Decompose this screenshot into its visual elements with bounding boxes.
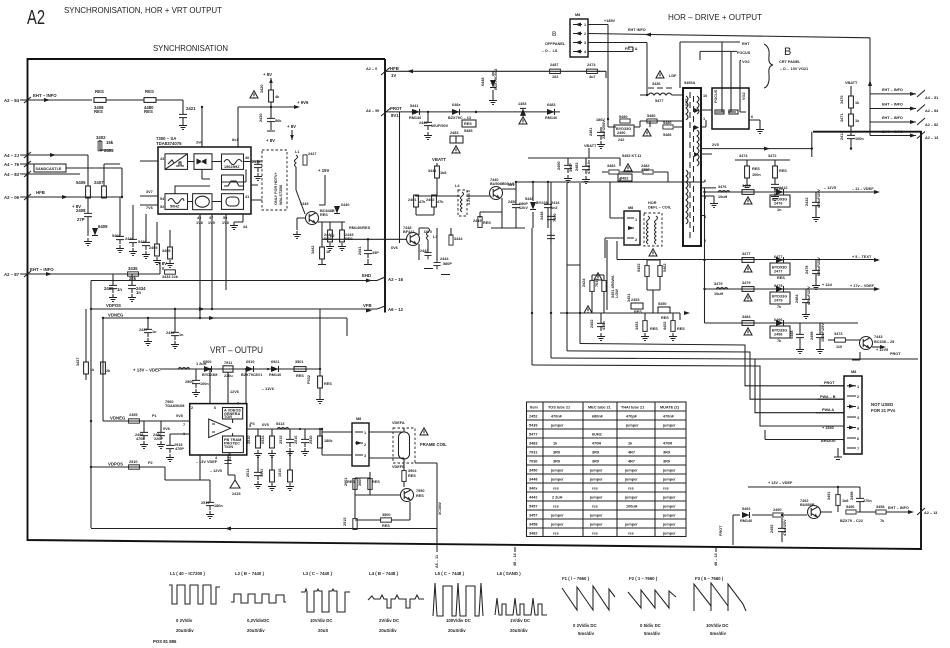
svg-text:2421: 2421 — [186, 106, 196, 111]
svg-text:1: 1 — [364, 431, 366, 435]
svg-text:3R9: 3R9 — [592, 460, 599, 464]
svg-text:P3: P3 — [250, 422, 255, 426]
svg-text:LOW: LOW — [615, 289, 619, 298]
svg-text:BZX79C8V2: BZX79C8V2 — [494, 69, 498, 90]
svg-text:jumper: jumper — [662, 424, 676, 428]
svg-text:A4 – 76: A4 – 76 — [4, 162, 20, 167]
svg-text:5ms/div: 5ms/div — [644, 631, 661, 636]
svg-text:3: 3 — [237, 402, 239, 406]
svg-text:BF422: BF422 — [403, 230, 414, 234]
svg-text:2437: 2437 — [139, 328, 147, 332]
svg-text:10: 10 — [703, 94, 707, 98]
svg-text:2510: 2510 — [247, 436, 251, 444]
svg-text:1n: 1n — [117, 287, 122, 292]
svg-text:3420: 3420 — [260, 85, 264, 93]
svg-text:7V6: 7V6 — [146, 206, 153, 210]
svg-text:RM140: RM140 — [409, 116, 421, 120]
svg-text:P2: P2 — [148, 461, 153, 465]
svg-text:20uS/div: 20uS/div — [448, 628, 466, 633]
svg-text:3442: 3442 — [311, 246, 315, 254]
svg-text:res: res — [592, 487, 598, 491]
svg-text:1n: 1n — [179, 333, 184, 337]
svg-text:A2 – 0: A2 – 0 — [366, 67, 377, 71]
svg-text:3448: 3448 — [540, 212, 544, 220]
svg-text:3483: 3483 — [529, 442, 537, 446]
svg-text:HFB: HFB — [36, 190, 45, 195]
svg-text:FOCUS: FOCUS — [737, 51, 751, 55]
svg-text:3904: 3904 — [408, 469, 417, 473]
svg-text:WALST2B0: WALST2B0 — [279, 185, 283, 205]
svg-text:+ 12V5: + 12V5 — [876, 348, 888, 352]
svg-text:6: 6 — [751, 115, 753, 119]
svg-text:2432: 2432 — [805, 198, 809, 206]
svg-text:2513: 2513 — [246, 469, 250, 477]
svg-text:6440: 6440 — [341, 203, 349, 207]
svg-text:+185V: +185V — [604, 19, 616, 23]
svg-text:RES: RES — [372, 480, 380, 484]
svg-text:2413: 2413 — [840, 132, 844, 140]
svg-text:6V5: 6V5 — [262, 423, 269, 427]
svg-text:RES: RES — [416, 494, 424, 498]
svg-text:2483: 2483 — [450, 131, 458, 135]
svg-text:390P: 390P — [569, 163, 573, 172]
svg-text:RES: RES — [145, 89, 154, 94]
svg-text:22uF/250V: 22uF/250V — [602, 120, 606, 139]
svg-text:1k: 1k — [855, 101, 860, 105]
svg-text:F2 ( 1 – 7660 ): F2 ( 1 – 7660 ) — [629, 576, 658, 581]
svg-text:20uS/div: 20uS/div — [176, 628, 194, 633]
svg-text:RES: RES — [324, 382, 332, 386]
svg-text:A2 – 13: A2 – 13 — [924, 511, 937, 515]
svg-text:EHD: EHD — [362, 273, 371, 278]
svg-text:242: 242 — [618, 138, 624, 142]
svg-text:jumper: jumper — [662, 532, 676, 536]
svg-text:5495A: 5495A — [684, 81, 695, 85]
svg-text:A2 – 84: A2 – 84 — [4, 98, 20, 103]
svg-text:EHT – INFO: EHT – INFO — [882, 88, 903, 92]
svg-text:1: 1 — [703, 117, 705, 121]
svg-text:2419: 2419 — [252, 160, 260, 164]
svg-text:+ 1540: + 1540 — [822, 426, 834, 430]
svg-text:L2: L2 — [330, 234, 334, 238]
svg-text:VDEFB: VDEFB — [392, 465, 405, 469]
svg-text:CRT PANEL: CRT PANEL — [779, 60, 801, 64]
svg-text:3R9: 3R9 — [553, 451, 560, 455]
svg-text:L5 ( C – 7448 ): L5 ( C – 7448 ) — [435, 571, 464, 576]
svg-text:4: 4 — [584, 50, 587, 54]
svg-text:SYNCHRONISATION: SYNCHRONISATION — [153, 43, 228, 53]
svg-text:VDPOS: VDPOS — [108, 462, 123, 467]
svg-text:L6 ( SAND ): L6 ( SAND ) — [497, 571, 521, 576]
svg-text:jumper: jumper — [589, 496, 603, 500]
svg-text:RES: RES — [777, 276, 785, 280]
svg-text:jumper: jumper — [550, 469, 564, 473]
svg-text:1k: 1k — [553, 442, 558, 446]
svg-text:+ 8V: + 8V — [72, 204, 81, 209]
svg-text:1k8: 1k8 — [842, 499, 848, 503]
svg-text:1V8: 1V8 — [222, 221, 229, 225]
svg-text:2450: 2450 — [508, 200, 516, 204]
svg-text:33P: 33P — [372, 251, 379, 255]
svg-text:jumper: jumper — [662, 496, 676, 500]
svg-text:5480: 5480 — [647, 114, 655, 118]
svg-text:A6 – 99: A6 – 99 — [366, 109, 379, 113]
svg-text:100n: 100n — [200, 382, 209, 386]
svg-text:jumper: jumper — [624, 478, 638, 482]
svg-text:2498: 2498 — [810, 332, 814, 340]
svg-text:7k: 7k — [777, 339, 782, 343]
svg-text:648x: 648x — [452, 103, 461, 107]
svg-text:2515: 2515 — [343, 518, 347, 526]
svg-text:jumper: jumper — [589, 469, 603, 473]
svg-text:THAI tube 21: THAI tube 21 — [621, 406, 644, 410]
svg-text:3476: 3476 — [742, 184, 750, 188]
svg-text:B: B — [784, 46, 791, 58]
svg-text:2483: 2483 — [575, 163, 579, 171]
svg-text:47: 47 — [209, 216, 213, 220]
svg-text:3448: 3448 — [529, 478, 537, 482]
svg-text:res: res — [553, 532, 559, 536]
svg-text:50: 50 — [223, 216, 227, 220]
svg-text:PROT: PROT — [390, 106, 402, 111]
svg-text:+ 12d: + 12d — [822, 283, 832, 287]
svg-text:110: 110 — [836, 345, 842, 349]
svg-text:EHT – INFO: EHT – INFO — [30, 267, 54, 272]
svg-text:10V/div DC: 10V/div DC — [310, 618, 332, 623]
svg-text:2452: 2452 — [590, 320, 594, 328]
svg-text:A2 – 87: A2 – 87 — [4, 272, 20, 277]
svg-text:1453: 1453 — [518, 102, 526, 106]
svg-text:7k: 7k — [777, 305, 782, 309]
svg-text:+ 15V: + 15V — [318, 168, 329, 173]
svg-text:20uS/div: 20uS/div — [247, 628, 265, 633]
svg-text:2: 2 — [857, 395, 859, 399]
svg-text:680uF/25V: 680uF/25V — [817, 257, 821, 276]
svg-text:47u/10v: 47u/10v — [587, 159, 591, 174]
svg-text:5480: 5480 — [663, 121, 671, 125]
svg-text:470R: 470R — [663, 442, 672, 446]
svg-text:470nF: 470nF — [663, 415, 675, 419]
svg-text:3437: 3437 — [76, 358, 80, 366]
svg-text:2403: 2403 — [104, 148, 114, 153]
svg-text:res: res — [553, 487, 559, 491]
svg-text:3479: 3479 — [714, 282, 722, 286]
svg-text:TOR: TOR — [224, 415, 232, 419]
svg-text:3436: 3436 — [652, 82, 660, 86]
svg-text:0V8: 0V8 — [176, 414, 183, 418]
svg-text:47uF/25V: 47uF/25V — [783, 519, 787, 536]
svg-text:1V/div DC: 1V/div DC — [510, 618, 530, 623]
svg-text:2416: 2416 — [125, 237, 133, 241]
svg-text:RES: RES — [296, 374, 304, 378]
svg-text:6: 6 — [214, 406, 216, 410]
svg-text:3498: 3498 — [876, 505, 884, 509]
svg-text:15625HZ: 15625HZ — [224, 165, 240, 169]
svg-text:VRT – OUTPU: VRT – OUTPU — [210, 345, 263, 355]
svg-text:1: 1 — [635, 218, 637, 222]
svg-text:1n: 1n — [136, 290, 141, 295]
svg-text:+ 17v – VDEF: + 17v – VDEF — [850, 284, 875, 288]
svg-text:7911: 7911 — [224, 361, 232, 365]
svg-text:6448: 6448 — [790, 331, 794, 339]
svg-text:EHT – INFO: EHT – INFO — [888, 506, 909, 510]
svg-text:10V/div DC: 10V/div DC — [706, 623, 728, 628]
svg-text:56k: 56k — [275, 119, 282, 123]
svg-text:L1: L1 — [295, 150, 299, 154]
svg-text:jumper: jumper — [624, 496, 638, 500]
svg-text:10uH: 10uH — [718, 195, 728, 199]
svg-text:2415: 2415 — [232, 492, 240, 496]
svg-text:5: 5 — [857, 427, 859, 431]
svg-text:– 13V VDEF: – 13V VDEF — [196, 460, 218, 464]
svg-text:27P: 27P — [77, 217, 85, 222]
svg-text:TDA8302M: TDA8302M — [165, 404, 184, 408]
svg-text:5ms/div: 5ms/div — [578, 631, 595, 636]
svg-text:2490: 2490 — [773, 508, 781, 512]
svg-text:470nF: 470nF — [551, 415, 563, 419]
svg-text:5450: 5450 — [658, 302, 666, 306]
svg-text:3: 3 — [584, 41, 586, 45]
svg-text:RM140: RM140 — [545, 116, 557, 120]
svg-text:5452 KT.11: 5452 KT.11 — [622, 154, 641, 158]
svg-text:100uF/25V: 100uF/25V — [821, 323, 825, 342]
svg-text:+ 8V: + 8V — [287, 124, 296, 129]
svg-text:4452: 4452 — [663, 322, 667, 330]
svg-text:470R: 470R — [592, 442, 601, 446]
svg-text:2427: 2427 — [308, 152, 316, 156]
svg-text:5448: 5448 — [525, 197, 533, 201]
svg-text:3402: 3402 — [96, 135, 106, 140]
svg-text:4 2444 3: 4 2444 3 — [467, 190, 471, 205]
svg-text:A2 – 13: A2 – 13 — [925, 136, 938, 140]
svg-text:5406: 5406 — [76, 180, 86, 185]
svg-text:3433 22k: 3433 22k — [162, 275, 179, 279]
svg-text:FOCUS: FOCUS — [714, 89, 718, 103]
svg-text:A6 – 11: A6 – 11 — [435, 555, 439, 568]
svg-text:2510: 2510 — [129, 460, 137, 464]
svg-text:→O← LS: →O← LS — [541, 49, 558, 53]
svg-text:RES: RES — [95, 89, 104, 94]
svg-text:LDF: LDF — [669, 74, 677, 78]
svg-text:MEC tube 21: MEC tube 21 — [588, 406, 611, 410]
svg-text:PWA – B: PWA – B — [820, 395, 836, 399]
svg-text:Item: Item — [530, 406, 538, 410]
svg-text:RES: RES — [94, 109, 103, 114]
svg-text:470uF/25V: 470uF/25V — [817, 189, 821, 208]
svg-text:6900: 6900 — [203, 360, 211, 364]
svg-text:2500: 2500 — [185, 380, 193, 384]
svg-text:RM140/RES: RM140/RES — [349, 226, 371, 230]
svg-text:100V/div DC: 100V/div DC — [446, 618, 471, 623]
svg-text:12V6: 12V6 — [230, 390, 239, 394]
svg-text:100uH: 100uH — [626, 505, 638, 509]
svg-text:jumper: jumper — [662, 478, 676, 482]
svg-text:1511: 1511 — [260, 469, 264, 477]
svg-text:VBATT: VBATT — [845, 81, 858, 85]
svg-text:220u: 220u — [224, 374, 233, 378]
svg-text:6448: 6448 — [481, 78, 485, 86]
svg-text:5457: 5457 — [529, 505, 537, 509]
svg-text:EHT: EHT — [742, 42, 750, 46]
svg-text:A6 – 12: A6 – 12 — [388, 307, 404, 312]
svg-text:7443: 7443 — [874, 335, 882, 339]
svg-text:4R7: 4R7 — [628, 451, 635, 455]
svg-text:PROT: PROT — [824, 381, 835, 385]
svg-text:20uS: 20uS — [318, 628, 328, 633]
svg-text:54: 54 — [160, 197, 165, 201]
svg-text:3458: 3458 — [529, 523, 537, 527]
svg-text:PROT: PROT — [890, 352, 901, 356]
svg-text:RES: RES — [408, 474, 416, 478]
svg-text:POS 81 886: POS 81 886 — [153, 639, 177, 644]
svg-text:6V6: 6V6 — [391, 246, 398, 250]
svg-text:2402: 2402 — [426, 198, 434, 202]
svg-text:jumper: jumper — [589, 514, 603, 518]
svg-text:2498: 2498 — [850, 492, 854, 500]
svg-text:1n: 1n — [777, 208, 782, 212]
svg-text:2492: 2492 — [770, 525, 774, 533]
svg-text:2516: 2516 — [294, 436, 298, 444]
svg-text:6409: 6409 — [98, 224, 108, 229]
svg-text:5477: 5477 — [655, 99, 663, 103]
svg-text:2V5: 2V5 — [712, 143, 719, 147]
svg-text:48 – 14: 48 – 14 — [714, 552, 718, 566]
svg-text:0 2V/div: 0 2V/div — [176, 618, 193, 623]
svg-text:2515: 2515 — [279, 436, 283, 444]
svg-text:– 11 – VDEF: – 11 – VDEF — [852, 187, 874, 191]
svg-text:1n: 1n — [152, 330, 157, 334]
svg-text:RES: RES — [382, 524, 390, 528]
svg-text:RM140: RM140 — [269, 373, 281, 377]
svg-text:50HZ: 50HZ — [170, 205, 180, 209]
svg-text:+ 13V – VDEF: + 13V – VDEF — [133, 368, 161, 373]
svg-text:6534: 6534 — [261, 435, 265, 444]
svg-text:5496: 5496 — [846, 505, 854, 509]
svg-text:2 2uH: 2 2uH — [552, 496, 563, 500]
svg-text:1k: 1k — [628, 442, 633, 446]
svg-text:20uS/div: 20uS/div — [379, 628, 397, 633]
svg-text:TDA8374075: TDA8374075 — [156, 141, 182, 146]
svg-text:HOR: HOR — [648, 201, 657, 205]
svg-text:2477: 2477 — [774, 270, 782, 274]
svg-text:5441: 5441 — [410, 104, 418, 108]
svg-text:NOT USED: NOT USED — [871, 402, 893, 407]
svg-text:5490: 5490 — [619, 115, 627, 119]
svg-text:52: 52 — [160, 205, 164, 209]
svg-text:EHT – INFO: EHT – INFO — [882, 130, 903, 134]
svg-text:3472: 3472 — [768, 154, 776, 158]
svg-text:5482: 5482 — [620, 177, 628, 181]
svg-text:2478: 2478 — [805, 266, 809, 274]
svg-text:7k: 7k — [880, 519, 885, 523]
svg-text:A2: A2 — [27, 7, 45, 29]
svg-text:3R9: 3R9 — [663, 460, 670, 464]
svg-text:→O← 13V VG21: →O← 13V VG21 — [779, 67, 808, 71]
svg-text:8V1: 8V1 — [391, 113, 399, 118]
svg-text:res: res — [553, 505, 559, 509]
svg-text:MUATE (2): MUATE (2) — [660, 406, 680, 410]
svg-text:2519: 2519 — [201, 501, 209, 505]
svg-text:RES: RES — [320, 213, 328, 217]
svg-text:470uF/25V: 470uF/25V — [807, 286, 811, 305]
svg-text:BZX79C8V1: BZX79C8V1 — [241, 373, 262, 377]
svg-text:5485: 5485 — [464, 129, 472, 133]
svg-text:FOR 21 PVs: FOR 21 PVs — [871, 408, 896, 413]
svg-text:6921: 6921 — [271, 360, 279, 364]
svg-text:2474: 2474 — [587, 63, 596, 67]
svg-text:HFB: HFB — [390, 66, 399, 71]
svg-text:40: 40 — [245, 156, 249, 160]
svg-text:1: 1 — [857, 385, 859, 389]
svg-text:6496: 6496 — [774, 318, 782, 322]
svg-text:3476: 3476 — [718, 185, 726, 189]
svg-text:2V/div DC: 2V/div DC — [379, 618, 399, 623]
svg-text:SANDCASTLE: SANDCASTLE — [36, 167, 62, 171]
svg-text:jumper: jumper — [550, 514, 564, 518]
svg-text:2: 2 — [364, 443, 366, 447]
svg-text:+ 9V6: + 9V6 — [297, 100, 309, 105]
svg-text:7030: 7030 — [595, 279, 599, 287]
svg-text:VG2: VG2 — [742, 60, 750, 64]
svg-text:470P: 470P — [175, 447, 184, 451]
svg-text:1k: 1k — [90, 368, 95, 372]
svg-text:L1 ( 40 – IC7200 ): L1 ( 40 – IC7200 ) — [170, 571, 205, 576]
svg-text:3491: 3491 — [827, 492, 831, 500]
svg-text:RES: RES — [661, 316, 669, 320]
svg-text:RES: RES — [144, 109, 153, 114]
svg-text:– 12V0: – 12V0 — [210, 469, 222, 473]
svg-text:VG2: VG2 — [742, 92, 746, 100]
svg-text:1k8: 1k8 — [440, 171, 446, 175]
svg-text:7: 7 — [183, 423, 185, 427]
svg-text:3R9: 3R9 — [663, 451, 670, 455]
svg-text:2416: 2416 — [551, 201, 559, 205]
svg-text:RES: RES — [483, 221, 491, 225]
svg-text:EHT – INFO: EHT – INFO — [882, 116, 903, 120]
svg-text:A4 – 2J: A4 – 2J — [4, 153, 20, 158]
svg-text:A2 – 16: A2 – 16 — [388, 277, 404, 282]
svg-text:BC338 – 25: BC338 – 25 — [874, 340, 894, 344]
svg-text:VDNEG: VDNEG — [108, 313, 124, 318]
svg-text:4k: 4k — [275, 95, 280, 99]
svg-text:+ 13V – VDEF: + 13V – VDEF — [768, 481, 793, 485]
svg-text:M8: M8 — [851, 370, 856, 374]
svg-text:EHT – INFO: EHT – INFO — [33, 93, 57, 98]
svg-text:OFFPANEL: OFFPANEL — [545, 42, 566, 46]
svg-text:+ 8V: + 8V — [263, 72, 272, 77]
svg-text:470n: 470n — [863, 499, 872, 503]
svg-text:RM140: RM140 — [740, 519, 752, 523]
svg-text:3435: 3435 — [128, 266, 138, 271]
svg-text:2453: 2453 — [631, 298, 639, 302]
svg-text:100n: 100n — [855, 137, 864, 141]
svg-text:580P: 580P — [443, 262, 452, 266]
svg-text:RES: RES — [347, 480, 355, 484]
svg-text:3484: 3484 — [742, 315, 751, 319]
svg-text:jumper: jumper — [662, 523, 676, 527]
svg-text:B: B — [552, 31, 556, 38]
svg-text:3009: 3009 — [358, 478, 362, 486]
svg-text:5462: 5462 — [663, 264, 667, 272]
svg-text:2439: 2439 — [104, 286, 114, 291]
svg-text:jumper: jumper — [589, 523, 603, 527]
svg-text:2476: 2476 — [774, 202, 782, 206]
svg-text:1516: 1516 — [278, 469, 282, 477]
svg-text:2441: 2441 — [358, 247, 362, 255]
svg-text:5477: 5477 — [529, 433, 537, 437]
svg-text:7950: 7950 — [416, 489, 424, 493]
svg-text:A2 – 82: A2 – 82 — [925, 123, 938, 127]
